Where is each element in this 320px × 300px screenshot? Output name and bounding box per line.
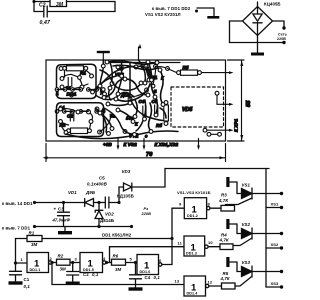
ground bar bridge: [251, 53, 264, 56]
pads bottom right stub: [207, 132, 211, 136]
node DD1.5 out: [105, 261, 108, 264]
svg-text:XS3: XS3: [271, 281, 280, 286]
svg-text:3М: 3М: [56, 2, 64, 8]
resistor R1 outline on board: [67, 66, 84, 71]
svg-text:С4: С4: [139, 99, 145, 104]
svg-text:DD1.1: DD1.1: [30, 268, 41, 272]
logic gate DD1.3: [184, 236, 205, 256]
svg-text:47,0мкФ: 47,0мкФ: [52, 218, 71, 223]
svg-text:12: 12: [208, 280, 213, 285]
ground bar under C1: [9, 281, 23, 284]
trace up-arrow pad: [139, 60, 142, 65]
wire XS1 stub: [266, 207, 280, 209]
wire R3 to VS1 gate: [226, 198, 253, 205]
logic gate DD1.5: [80, 253, 103, 273]
svg-text:DD1: DD1: [67, 92, 77, 98]
svg-text:КД105Б: КД105Б: [117, 194, 134, 199]
connector bar VS3 anode: [226, 257, 229, 267]
node DD1.1 input: [14, 261, 17, 264]
dimension 70: [46, 144, 226, 162]
transistor VT1 pads on board: [147, 78, 151, 82]
capacitor C2 (top fragment): [34, 6, 47, 17]
wire R4 to VS2 gate: [234, 238, 252, 246]
svg-text:С3: С3: [58, 207, 64, 212]
node VD2 bottom: [97, 225, 100, 228]
svg-text:DD1.4: DD1.4: [187, 292, 199, 296]
svg-text:4,7К: 4,7К: [218, 198, 228, 203]
svg-text:DD1 К561ЛН2: DD1 К561ЛН2: [102, 233, 132, 238]
wire R6 to DD1.6: [126, 262, 138, 264]
trace bundle upper middle: [96, 60, 155, 100]
node C4 tap: [134, 261, 137, 264]
ground chassis above board: [97, 51, 110, 53]
ground bar under C2: [66, 282, 80, 285]
ground chassis bar top: [207, 16, 219, 19]
connector bar VS1 anode: [226, 177, 229, 187]
svg-text:Д9Б: Д9Б: [85, 190, 95, 195]
svg-text:VD3: VD3: [122, 169, 131, 174]
capacitor C2 outline on board: [70, 111, 74, 121]
svg-text:к выв. 7 DD1 DD2: к выв. 7 DD1 DD2: [152, 6, 191, 11]
wire DD1.4 out: [209, 285, 222, 287]
wire bridge bottom horizontal: [230, 42, 285, 44]
svg-text:R5: R5: [183, 65, 189, 70]
trace R5 feed: [156, 66, 177, 72]
logic gate DD1.1: [27, 253, 49, 273]
svg-text:VD1: VD1: [68, 190, 77, 195]
node top-left junction: [32, 0, 35, 3]
node A supply: [97, 201, 100, 204]
zener diode VD2 Д814Б: [95, 203, 103, 227]
wire ground rail: [35, 226, 132, 228]
trace ring lower-left: [57, 103, 104, 137]
arrow out right 1: [201, 72, 229, 74]
IC pin row 1 pads: [55, 88, 105, 92]
node XS1 pin a: [280, 192, 283, 195]
svg-text:VS2: VS2: [242, 222, 251, 227]
wire R5 to VS3 gate: [235, 276, 252, 286]
svg-text:R6: R6: [113, 254, 119, 259]
svg-text:R3: R3: [221, 193, 227, 198]
svg-text:4,7К: 4,7К: [220, 276, 230, 281]
capacitor C1 outline on board: [68, 78, 72, 87]
wire bridge left lead: [230, 21, 243, 43]
node XS1 pin b: [280, 206, 283, 209]
trace extra middle squiggles: [104, 79, 166, 131]
arrow down К XS1,XS2: [198, 139, 200, 147]
svg-text:VD2: VD2: [105, 211, 114, 216]
node B: [117, 201, 120, 204]
trace bundle lower middle: [96, 96, 163, 135]
connector bar VS2 anode: [226, 219, 229, 229]
wire top-left horizontal: [34, 1, 115, 3]
svg-text:VS3: VS3: [242, 260, 251, 265]
wire node B up to VD3 level: [118, 187, 120, 203]
svg-text:1: 1: [56, 91, 59, 97]
logic gate DD1.2: [184, 198, 206, 219]
svg-text:VS1-VS3 КУ101Б: VS1-VS3 КУ101Б: [177, 190, 211, 195]
svg-text:3М: 3М: [60, 267, 67, 272]
svg-text:0,1: 0,1: [154, 275, 161, 280]
wire XS3 stub: [266, 286, 280, 288]
svg-text:Rб: Rб: [156, 123, 162, 128]
svg-text:10: 10: [208, 240, 213, 245]
wire DD1.2 out: [210, 207, 221, 209]
logic gate DD1.4: [184, 276, 206, 296]
wire VD1 to C5: [94, 202, 106, 204]
svg-text:+9В: +9В: [103, 142, 112, 147]
svg-text:R2: R2: [58, 254, 64, 259]
diode inside bridge: [253, 7, 262, 36]
wire DD1.3 out: [208, 246, 220, 248]
svg-text:к выв. 7 DD1: к выв. 7 DD1: [2, 226, 31, 231]
resistor R4 vertical outline on board: [164, 105, 169, 121]
resistor 3M (cut off at top): [50, 0, 67, 7]
svg-text:DD1.2: DD1.2: [187, 214, 198, 218]
svg-text:XS1: XS1: [271, 202, 280, 207]
svg-text:XS2: XS2: [271, 242, 280, 247]
node XS2 pin a: [280, 232, 283, 235]
wire DD1.5 out to DD1.3 input: [110, 247, 185, 263]
svg-text:4,7К: 4,7К: [219, 237, 229, 242]
trace lower middle curls: [100, 114, 111, 132]
arrow down +9В: [117, 139, 119, 147]
node XS2 pin b: [280, 246, 283, 249]
wire DD1.1 out down to DD1.4: [52, 263, 184, 285]
svg-text:R1: R1: [80, 71, 86, 76]
svg-text:С5: С5: [99, 176, 105, 181]
capacitor C3 47,0мкФ electrolytic: [62, 201, 65, 204]
node XS3 pin b: [280, 285, 283, 288]
trace ring upper-left: [57, 64, 97, 98]
arrow down К VS2: [143, 139, 145, 147]
wire into DD1.1: [16, 262, 28, 264]
wire supply rail: [35, 202, 85, 204]
svg-text:DD1.3: DD1.3: [186, 252, 197, 256]
svg-text:VS1: VS1: [242, 183, 251, 188]
svg-text:70: 70: [146, 152, 153, 158]
trace inner upper-left: [62, 71, 92, 89]
node mains terminal upper: [282, 26, 285, 29]
node DD1.1 out: [50, 261, 53, 264]
svg-text:DD1.5: DD1.5: [83, 268, 94, 272]
extra pads 2: [98, 60, 165, 130]
trace IC to transistor: [95, 66, 144, 91]
wire R2 to DD1.5: [70, 262, 80, 264]
svg-text:VS1 VS2 КУ201Л: VS1 VS2 КУ201Л: [145, 12, 181, 17]
wire XS2 stub: [266, 247, 280, 249]
svg-text:К VS2: К VS2: [124, 142, 138, 147]
capacitor C4 0,1: [130, 263, 142, 288]
svg-text:С1: С1: [24, 277, 30, 282]
capacitor C4 outline on board: [143, 106, 146, 116]
extra pads 3: [102, 77, 153, 133]
svg-text:0,1х400В: 0,1х400В: [87, 182, 108, 187]
node C2 tap: [71, 261, 74, 264]
arrow out right 3: [207, 129, 229, 131]
svg-text:3М: 3М: [115, 267, 122, 272]
PCB board outline: [46, 60, 226, 141]
wire top-left left branch: [33, 2, 35, 12]
svg-text:К XS1,XS2: К XS1,XS2: [155, 142, 179, 147]
pad and arrow out right 2: [215, 91, 219, 95]
node ground rail end: [130, 225, 133, 228]
svg-text:КЦ405Б: КЦ405Б: [264, 2, 281, 7]
svg-text:13: 13: [175, 279, 180, 284]
trace middle vertical: [128, 97, 132, 101]
wire VD3 to top rail: [132, 169, 269, 188]
dimension 55: [228, 60, 245, 141]
svg-text:К ХР1: К ХР1: [234, 118, 239, 132]
svg-text:11: 11: [178, 241, 183, 246]
node feedback junction: [170, 237, 173, 240]
trace mid sweeping: [96, 92, 134, 99]
wire top-left right branch: [48, 2, 116, 12]
wire bridge top lead: [257, 2, 259, 7]
node XS3 pin a: [280, 270, 283, 273]
pads lower-left: [59, 107, 102, 134]
capacitor C5 outline on board: [155, 105, 158, 115]
component VD5 dashed outline: [171, 87, 224, 127]
capacitor C2 0,1: [67, 263, 79, 282]
svg-text:VD5: VD5: [182, 107, 192, 113]
wire R1 feedback line: [16, 238, 173, 240]
svg-text:220В: 220В: [141, 212, 152, 216]
svg-text:к выв. 14 DD1: к выв. 14 DD1: [2, 201, 33, 206]
wire DD1.1 out: [52, 262, 57, 264]
svg-text:0,47: 0,47: [40, 20, 52, 26]
svg-text:0,1: 0,1: [24, 284, 31, 289]
trace IC pad pair bars: [57, 90, 103, 112]
trace bottom long curve: [66, 131, 178, 139]
svg-text:Д814Б: Д814Б: [100, 218, 114, 223]
pads upper-left: [59, 67, 94, 97]
svg-text:55: 55: [246, 100, 252, 107]
svg-text:C2: C2: [39, 3, 46, 9]
trace big middle loops: [100, 61, 163, 128]
wire to chassis: [197, 8, 214, 16]
IC pin row 2 pads: [55, 110, 105, 114]
svg-text:С2: С2: [67, 114, 73, 119]
svg-text:К: К: [135, 122, 138, 127]
svg-text:R1: R1: [29, 231, 35, 236]
svg-text:С4: С4: [145, 275, 151, 280]
trace inner lower-left: [60, 108, 92, 132]
wire bridge bottom lead: [257, 36, 259, 53]
ground bar under C3: [64, 227, 66, 232]
svg-text:220В: 220В: [277, 37, 286, 41]
wire C5 to node B: [109, 202, 119, 204]
wire DD1.5 out: [106, 262, 112, 264]
wire R1 down to DD1.1 input: [15, 239, 17, 264]
extra pads middle: [98, 60, 158, 136]
trace top edge horizontal: [108, 62, 180, 64]
node mains terminal lower: [282, 41, 285, 44]
wire bridge right lead: [273, 21, 285, 28]
logic gate DD1.6: [137, 255, 159, 275]
wire XS common rail: [265, 169, 267, 288]
capacitor C1 0,1: [10, 263, 22, 281]
wire DD1.6 out up to bus: [162, 208, 172, 264]
svg-text:+: +: [54, 207, 57, 212]
svg-text:Рэ: Рэ: [144, 207, 149, 211]
svg-text:DD1.6: DD1.6: [140, 270, 151, 274]
trace transistor curves: [125, 66, 156, 96]
wire up-arrow above board: [138, 47, 140, 60]
ground bar under C4: [129, 287, 143, 290]
svg-text:3М: 3М: [31, 242, 38, 247]
wire DD1.2 input: [172, 207, 184, 209]
